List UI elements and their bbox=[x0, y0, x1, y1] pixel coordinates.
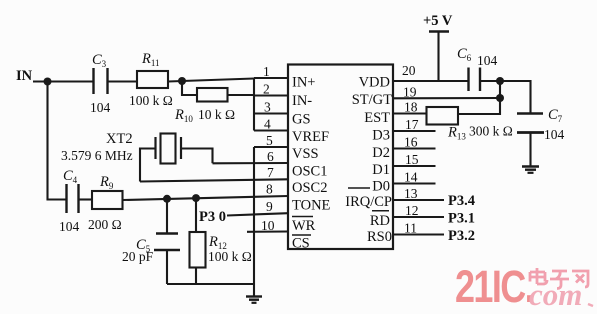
IC pin label WR with overline bbox=[292, 217, 316, 234]
node R11 output junction bbox=[178, 77, 186, 85]
svg-text:18: 18 bbox=[404, 100, 418, 115]
resistor R12 bbox=[190, 198, 206, 284]
svg-text:17: 17 bbox=[405, 117, 419, 132]
svg-text:15: 15 bbox=[405, 152, 419, 167]
watermark underline tail bbox=[588, 304, 593, 306]
svg-text:20: 20 bbox=[402, 63, 416, 78]
svg-text:13: 13 bbox=[404, 186, 418, 201]
svg-text:IRQ/CP: IRQ/CP bbox=[345, 194, 392, 210]
svg-text:16: 16 bbox=[404, 135, 418, 150]
svg-text:104: 104 bbox=[544, 127, 565, 142]
svg-text:IN: IN bbox=[16, 68, 33, 84]
IC pin label CS with overline bbox=[292, 235, 311, 252]
svg-text:VSS: VSS bbox=[292, 146, 319, 162]
svg-text:9: 9 bbox=[266, 199, 273, 214]
ground symbol bottom bbox=[246, 297, 262, 303]
svg-text:com: com bbox=[529, 277, 582, 312]
watermark chinese 电子网 bbox=[530, 268, 588, 289]
svg-text:D1: D1 bbox=[372, 162, 390, 178]
svg-text:1: 1 bbox=[263, 64, 270, 79]
svg-text:6: 6 bbox=[267, 149, 274, 164]
svg-text:104: 104 bbox=[90, 100, 111, 115]
wire crystal left to OSC2 pin 7 bbox=[140, 149, 156, 182]
resistor R10 bbox=[197, 88, 228, 102]
svg-text:7: 7 bbox=[267, 165, 274, 180]
wire pin 4 bbox=[254, 129, 288, 131]
wire pin 20 VDD bbox=[393, 80, 468, 82]
svg-text:2: 2 bbox=[263, 82, 270, 97]
svg-text:TONE: TONE bbox=[292, 197, 331, 213]
wire R10 to bus bbox=[228, 94, 256, 96]
resistor R9 bbox=[92, 191, 123, 209]
wire pin 2 bbox=[254, 94, 288, 96]
wire pin 1 bbox=[254, 77, 288, 79]
svg-text:3.579 6 MHz: 3.579 6 MHz bbox=[61, 148, 133, 163]
svg-text:IN+: IN+ bbox=[292, 75, 315, 91]
wire IN node down to C4 bbox=[48, 82, 67, 200]
capacitor C4 bbox=[67, 184, 79, 213]
svg-text:3: 3 bbox=[264, 100, 271, 115]
svg-text:21IC.: 21IC. bbox=[455, 261, 533, 312]
capacitor C3 bbox=[94, 68, 108, 94]
svg-text:10 k Ω: 10 k Ω bbox=[198, 107, 235, 122]
svg-text:RS0: RS0 bbox=[367, 229, 392, 245]
svg-text:CS: CS bbox=[292, 236, 310, 252]
wire pin 5 bbox=[254, 146, 288, 148]
wire IN to C3 bbox=[33, 80, 93, 82]
svg-text:+5 V: +5 V bbox=[423, 13, 453, 29]
wire pin 19 ST/GT bbox=[393, 97, 500, 99]
svg-text:D0: D0 bbox=[372, 179, 390, 195]
crystal XT2 bbox=[156, 134, 182, 164]
svg-text:OSC1: OSC1 bbox=[292, 163, 327, 179]
capacitor C5 bbox=[154, 198, 180, 284]
op-amp U1 DTMF decoder IC body bbox=[288, 65, 393, 250]
wire R11 to bus bbox=[168, 79, 254, 82]
svg-text:XT2: XT2 bbox=[106, 131, 133, 147]
svg-text:100 k Ω: 100 k Ω bbox=[129, 93, 173, 108]
svg-text:4: 4 bbox=[264, 117, 271, 132]
capacitor C7 bbox=[517, 114, 544, 167]
wire pin 13 IRQ/CP to P3.4 bbox=[393, 199, 444, 201]
svg-text:P3.1: P3.1 bbox=[448, 211, 475, 227]
wire pin 10 CS to ground bus bbox=[247, 230, 288, 232]
wire C4 to R9 bbox=[79, 198, 93, 200]
svg-text:ST/GT: ST/GT bbox=[352, 92, 392, 108]
svg-text:D3: D3 bbox=[372, 128, 390, 144]
svg-text:200 Ω: 200 Ω bbox=[88, 217, 122, 232]
wire pin 16 D2 stub bbox=[393, 147, 436, 149]
wire bottom rail to ground bus bbox=[167, 283, 254, 285]
svg-text:100 k Ω: 100 k Ω bbox=[208, 249, 252, 264]
svg-text:104: 104 bbox=[477, 53, 498, 68]
node C5 junction bbox=[163, 195, 171, 203]
power +5V rail bbox=[429, 32, 449, 82]
svg-text:IN-: IN- bbox=[292, 93, 312, 109]
wire pin 18 EST to R13 bbox=[393, 112, 427, 114]
svg-text:P3.4: P3.4 bbox=[448, 193, 475, 209]
capacitor C6 bbox=[469, 68, 481, 92]
svg-text:300 k Ω: 300 k Ω bbox=[469, 124, 513, 139]
wire junction down to R10 bbox=[182, 81, 197, 95]
resistor R13 bbox=[427, 107, 459, 125]
wire crystal right to OSC1 pin 6 bbox=[181, 149, 213, 164]
svg-text:WR: WR bbox=[292, 218, 316, 234]
node R12 junction bbox=[192, 194, 200, 202]
wire input bus vertical pins 1-4 bbox=[253, 78, 255, 131]
svg-text:P3.2: P3.2 bbox=[448, 228, 475, 244]
svg-text:12: 12 bbox=[405, 203, 419, 218]
svg-text:RD: RD bbox=[370, 213, 390, 229]
svg-text:8: 8 bbox=[266, 182, 273, 197]
wire C6 to C7 top bbox=[480, 81, 531, 114]
svg-text:P3 0: P3 0 bbox=[199, 209, 226, 225]
ground symbol right bbox=[522, 167, 539, 173]
svg-text:VREF: VREF bbox=[292, 129, 329, 145]
wire C3 to R11 bbox=[108, 80, 138, 82]
wire pin 11 RS0 to P3.2 bbox=[393, 233, 444, 235]
svg-text:OSC2: OSC2 bbox=[292, 180, 327, 196]
wire pin 17 D3 stub bbox=[393, 130, 436, 132]
wire pin 15 D1 stub bbox=[393, 165, 436, 167]
svg-text:5: 5 bbox=[266, 133, 273, 148]
node ST/GT junction bbox=[496, 94, 504, 102]
svg-text:14: 14 bbox=[404, 170, 418, 185]
svg-text:D2: D2 bbox=[372, 145, 390, 161]
node IN junction bbox=[44, 78, 52, 86]
node VDD bypass junction bbox=[496, 77, 504, 85]
wire pin 14 D0 stub bbox=[393, 182, 436, 184]
svg-text:GS: GS bbox=[292, 112, 311, 128]
wire pin 12 RD to P3.1 bbox=[393, 216, 444, 218]
resistor R11 bbox=[137, 71, 168, 88]
wire pin 3 bbox=[254, 112, 288, 114]
svg-text:20 pF: 20 pF bbox=[122, 249, 154, 264]
svg-text:11: 11 bbox=[404, 221, 417, 236]
IC pin label RD with overline bbox=[370, 211, 390, 229]
svg-text:EST: EST bbox=[364, 110, 390, 126]
wire P3 0 to pin 9 WR bbox=[227, 213, 288, 215]
svg-text:104: 104 bbox=[59, 219, 80, 234]
wire TONE R9 to pin 8 bbox=[123, 196, 289, 200]
IC pin label IRQ/CP with overline over IRQ bbox=[345, 188, 392, 210]
wire ground bus vertical pin5 to ground bbox=[253, 147, 255, 296]
svg-text:VDD: VDD bbox=[359, 75, 390, 91]
wire junction down to R13 bbox=[458, 81, 500, 114]
